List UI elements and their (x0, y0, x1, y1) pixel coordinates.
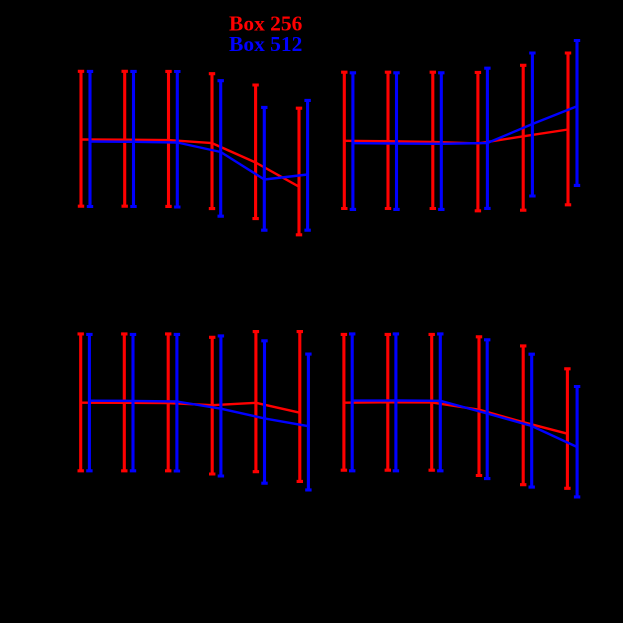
top-right panel blue error bar 5 (Box 512) (529, 53, 535, 196)
bottom-left panel red error bar 2 (Box 256) (121, 334, 127, 471)
bottom-right panel red error bar 3 (Box 256) (429, 334, 435, 470)
top-left panel red error bar 2 (Box 256) (122, 71, 128, 206)
top-left panel blue error bar 5 (Box 512) (261, 107, 267, 230)
top-right panel red error bar 3 (Box 256) (430, 72, 436, 208)
bottom-left panel red error bar 5 (Box 256) (253, 332, 259, 472)
top-left panel red error bar 5 (Box 256) (252, 85, 258, 219)
top-right panel red error bar 2 (Box 256) (385, 72, 391, 208)
top-right panel blue connecting line (Box 512) (353, 106, 577, 144)
top-right panel blue error bar 1 (Box 512) (350, 73, 356, 210)
top-left panel blue error bar 3 (Box 512) (174, 72, 180, 208)
bottom-right panel red error bar 6 (Box 256) (564, 369, 570, 489)
top-right panel blue error bar 4 (Box 512) (484, 68, 490, 208)
top-left panel red error bar 1 (Box 256) (78, 71, 84, 206)
bottom-right panel red error bar 1 (Box 256) (341, 334, 347, 470)
bottom-left panel red error bar 4 (Box 256) (209, 337, 215, 474)
bottom-left panel blue connecting line (Box 512) (89, 401, 308, 427)
bottom-right panel red error bar 4 (Box 256) (476, 337, 482, 476)
bottom-left panel blue error bar 2 (Box 512) (130, 334, 136, 470)
bottom-left panel blue error bar 6 (Box 512) (305, 354, 311, 490)
top-right panel blue error bar 6 (Box 512) (574, 41, 580, 186)
bottom-right panel red error bar 5 (Box 256) (520, 346, 526, 485)
bottom-left panel blue error bar 1 (Box 512) (86, 334, 92, 470)
bottom-right panel red error bar 2 (Box 256) (385, 334, 391, 470)
bottom-left panel blue error bar 5 (Box 512) (261, 341, 267, 483)
bottom-right panel blue connecting line (Box 512) (352, 401, 577, 448)
top-left panel red error bar 6 (Box 256) (296, 108, 302, 235)
bottom-right panel blue error bar 6 (Box 512) (574, 387, 580, 497)
bottom-right panel blue error bar 4 (Box 512) (484, 340, 490, 479)
top-right panel red connecting line (Box 256) (344, 130, 568, 144)
svg-text:Box 512: Box 512 (229, 32, 302, 56)
bottom-right panel blue error bar 3 (Box 512) (437, 334, 443, 471)
bottom-left panel red error bar 3 (Box 256) (165, 334, 171, 471)
bottom-left panel red connecting line (Box 256) (81, 403, 300, 413)
bottom-left panel blue error bar 3 (Box 512) (174, 334, 180, 471)
top-left panel blue connecting line (Box 512) (90, 142, 308, 180)
top-left panel blue error bar 1 (Box 512) (87, 71, 93, 206)
top-left panel red error bar 4 (Box 256) (209, 74, 215, 209)
bottom-left panel red error bar 1 (Box 256) (78, 334, 84, 471)
top-left panel blue error bar 4 (Box 512) (218, 81, 224, 217)
top-right panel red error bar 1 (Box 256) (341, 72, 347, 208)
top-left panel red error bar 3 (Box 256) (165, 71, 171, 206)
bottom-right panel blue error bar 1 (Box 512) (349, 334, 355, 471)
top-right panel red error bar 6 (Box 256) (565, 53, 571, 205)
top-left panel blue error bar 6 (Box 512) (304, 100, 310, 230)
top-left panel blue error bar 2 (Box 512) (130, 71, 136, 206)
bottom-right panel blue error bar 5 (Box 512) (529, 354, 535, 487)
top-right panel blue error bar 2 (Box 512) (393, 73, 399, 210)
bottom-left panel blue error bar 4 (Box 512) (218, 336, 224, 476)
top-right panel red error bar 5 (Box 256) (520, 65, 526, 210)
top-left panel red connecting line (Box 256) (81, 140, 299, 187)
top-right panel red error bar 4 (Box 256) (475, 72, 481, 210)
top-right panel blue error bar 3 (Box 512) (438, 73, 444, 210)
bottom-right panel red connecting line (Box 256) (344, 402, 568, 433)
bottom-right panel blue error bar 2 (Box 512) (393, 334, 399, 471)
bottom-left panel red error bar 6 (Box 256) (297, 332, 303, 482)
